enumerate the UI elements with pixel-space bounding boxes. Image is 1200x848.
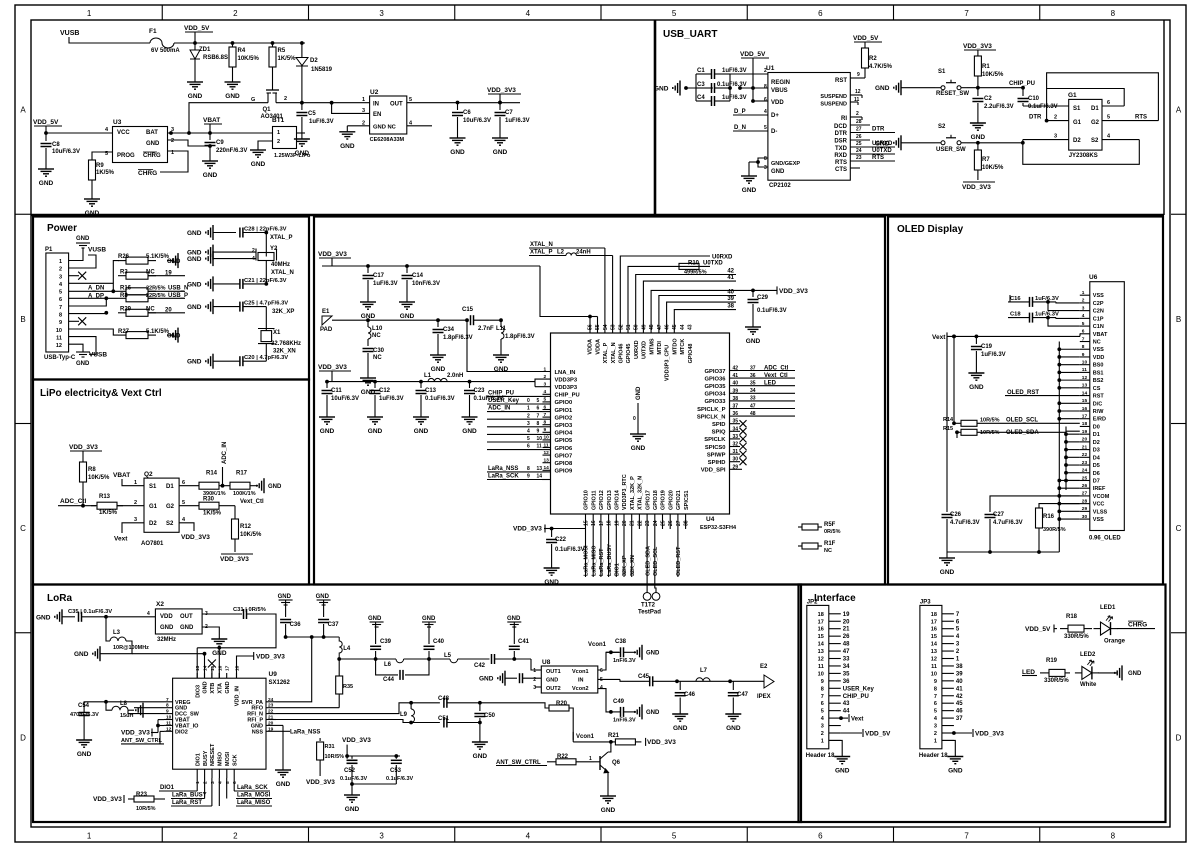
crystal X1 32.768KHz [265,307,267,331]
svg-text:40: 40 [733,381,739,387]
svg-text:X2: X2 [156,601,164,608]
svg-text:21: 21 [843,627,850,633]
svg-text:L9: L9 [400,712,408,718]
capacitor C1 1uF/6.3V [685,87,713,89]
svg-text:2: 2 [934,731,937,737]
svg-text:5: 5 [821,709,824,715]
svg-text:8: 8 [764,156,767,162]
wire U3 CHRG pin1 loop [160,151,188,172]
svg-text:6: 6 [59,297,62,303]
wire VDD rail to caps [322,265,540,267]
svg-text:C30: C30 [373,348,385,354]
svg-text:RTS: RTS [872,155,884,161]
svg-text:SPIWP: SPIWP [707,452,726,458]
svg-text:10: 10 [56,328,62,334]
svg-text:22: 22 [637,520,643,526]
svg-text:DTR: DTR [1029,115,1042,121]
svg-text:Header 18: Header 18 [806,753,835,759]
svg-text:VBUS: VBUS [771,88,788,94]
svg-text:C27: C27 [993,512,1005,518]
capacitor C20 4.7pF/6.3V [212,354,214,369]
svg-text:GND: GND [36,614,51,621]
svg-text:50: 50 [634,324,640,330]
svg-text:6: 6 [818,9,823,18]
capacitor C11 10uF/6.3V [325,380,329,384]
svg-text:VBAT: VBAT [203,117,220,124]
svg-text:6: 6 [764,97,767,103]
svg-text:C17: C17 [373,273,385,279]
svg-text:GND: GND [187,304,202,311]
svg-text:40: 40 [956,679,963,685]
svg-text:E2: E2 [760,664,768,670]
svg-text:GND: GND [167,259,181,265]
svg-text:EN: EN [373,112,381,118]
ground GND under U1 [748,170,750,176]
svg-text:30: 30 [733,457,739,463]
svg-text:GND: GND [473,753,488,760]
svg-text:17: 17 [818,619,824,625]
svg-text:7: 7 [166,697,169,703]
svg-text:VBAT: VBAT [113,472,130,479]
svg-text:NC: NC [373,355,382,361]
svg-text:4.7uF/6.3V: 4.7uF/6.3V [993,520,1023,526]
svg-text:DIO2: DIO2 [175,729,188,735]
svg-text:2.2uF/6.3V: 2.2uF/6.3V [984,104,1014,110]
svg-text:GPIO18: GPIO18 [653,490,659,510]
svg-text:G2: G2 [166,504,175,510]
capacitor C17 1uF/6.3V [366,264,370,268]
svg-text:GPIO35: GPIO35 [705,384,727,390]
svg-text:U0TXD: U0TXD [642,341,648,359]
svg-text:3: 3 [379,832,384,841]
svg-text:1: 1 [589,756,592,762]
svg-text:Vext: Vext [114,536,128,543]
wire U3 VCC [46,132,113,134]
svg-text:LaRa_MISO: LaRa_MISO [237,800,271,806]
wire P1 pin8 [69,313,107,315]
svg-text:R5: R5 [278,48,286,54]
capacitor C29 0.1uF/6.3V [752,290,754,297]
wire C36 C37 junction line [286,636,340,638]
wire U9 RFO pin23 to R35 [276,707,339,709]
svg-text:White: White [1080,682,1097,688]
svg-text:GND: GND [180,625,194,631]
svg-text:GND: GND [507,616,521,622]
wire Vcon1 to R21 junction [573,741,611,743]
svg-text:1: 1 [87,9,92,18]
svg-text:6: 6 [537,406,540,412]
wire XTA from DIO3 line [217,646,221,650]
svg-text:3: 3 [1054,134,1057,140]
wire U3 PROG to R9 [92,152,113,160]
svg-text:0.96_OLED: 0.96_OLED [1089,536,1121,542]
svg-text:2.7nF: 2.7nF [478,326,494,332]
svg-text:L2: L2 [557,250,565,256]
svg-text:0R/5%: 0R/5% [824,529,841,535]
svg-text:2.0nH: 2.0nH [447,373,463,379]
svg-text:SX1262: SX1262 [269,680,291,686]
svg-text:D1: D1 [1091,106,1099,112]
svg-text:JP2: JP2 [807,599,818,605]
svg-text:OLED_SDA: OLED_SDA [645,546,651,576]
capacitor C8 10uF/6.3V [45,133,47,141]
svg-text:VSS: VSS [1093,293,1104,299]
svg-text:GND: GND [414,428,429,435]
svg-text:LaRa_MISO: LaRa_MISO [591,545,597,576]
svg-text:55: 55 [595,324,601,330]
svg-text:10uF/6.3V: 10uF/6.3V [463,118,491,124]
ground GND under C7 [499,132,501,138]
svg-text:8: 8 [764,84,767,90]
svg-text:48: 48 [843,642,850,648]
svg-text:GND: GND [875,85,890,92]
svg-text:18: 18 [235,665,241,671]
svg-text:GND: GND [146,141,160,147]
svg-text:C9: C9 [216,140,224,146]
svg-text:C: C [20,524,26,533]
svg-text:4: 4 [600,685,603,691]
svg-text:S2: S2 [938,124,946,130]
svg-text:VDD3P3_CPU: VDD3P3_CPU [665,345,671,381]
ground GND under C29 [752,321,754,327]
svg-text:3: 3 [934,724,937,730]
ground GND under JP2 [841,751,843,757]
svg-text:U0TXD: U0TXD [703,261,723,267]
svg-text:3: 3 [821,724,824,730]
svg-text:NC: NC [372,333,381,339]
svg-text:6: 6 [821,701,824,707]
svg-text:1uF/6.3V: 1uF/6.3V [722,68,747,74]
svg-text:6V 500mA: 6V 500mA [151,48,180,54]
svg-text:Q1: Q1 [263,107,272,113]
svg-text:OLED_SCL: OLED_SCL [653,546,659,576]
svg-text:C1P: C1P [1093,316,1104,322]
svg-text:GND: GND [187,281,202,288]
svg-text:26: 26 [1082,483,1088,489]
svg-text:26: 26 [668,520,674,526]
svg-text:GND: GND [673,725,688,732]
wire VDDA pins [589,317,591,334]
wire DIO3 down [196,648,198,678]
svg-text:LED: LED [764,381,777,387]
svg-text:DCD: DCD [834,124,848,130]
svg-text:VDD: VDD [160,614,173,620]
svg-text:34: 34 [733,426,739,432]
svg-text:GND: GND [187,359,202,366]
svg-text:OLED_SCL: OLED_SCL [1006,418,1038,424]
svg-text:VDD_5V: VDD_5V [184,25,210,32]
svg-text:XTAL_P: XTAL_P [270,235,293,241]
svg-text:NSS: NSS [252,729,264,735]
svg-text:GND: GND [431,366,446,373]
svg-text:C49: C49 [613,699,625,705]
svg-text:12: 12 [855,89,861,95]
svg-text:GPIO11: GPIO11 [591,490,597,510]
svg-text:Vext: Vext [932,334,946,341]
svg-text:2: 2 [856,111,859,117]
svg-text:10K/5%: 10K/5% [238,56,260,62]
svg-text:41: 41 [733,373,739,379]
svg-text:RTS: RTS [835,160,847,166]
svg-text:LED1: LED1 [1100,605,1116,611]
svg-text:OLED_RST: OLED_RST [1007,390,1039,396]
svg-text:PAD: PAD [320,327,333,333]
section box LiPo [33,380,309,585]
svg-text:C40: C40 [433,639,445,645]
svg-text:C13: C13 [425,388,437,394]
svg-text:GND: GND [167,334,181,340]
inductor L10 NC [366,318,370,322]
svg-text:XTAL_P: XTAL_P [603,342,609,363]
svg-text:VDD_3V3: VDD_3V3 [256,654,285,661]
svg-text:35: 35 [733,419,739,425]
svg-text:C50: C50 [484,713,496,719]
svg-text:R35: R35 [343,684,353,690]
svg-text:R14: R14 [206,471,218,477]
capacitor C18 1uF/6.3V [1029,313,1031,323]
svg-text:CHRG: CHRG [1128,622,1147,629]
svg-text:11: 11 [818,664,824,670]
wire P1 pin11 pin12 to VUSB bottom [69,337,96,355]
svg-text:L10: L10 [372,326,383,332]
wire XTAL_N to C21 [265,261,267,284]
ground GND right of BT1 [297,132,306,134]
svg-text:VDDA: VDDA [595,339,601,355]
svg-text:NC: NC [1093,340,1101,346]
svg-text:C35 | 0.1uF/6.3V: C35 | 0.1uF/6.3V [68,609,112,615]
svg-text:CHIP_PU: CHIP_PU [488,391,514,397]
svg-text:GPIO17: GPIO17 [645,490,651,510]
svg-text:10uF/6.3V: 10uF/6.3V [331,396,359,402]
svg-text:G1: G1 [1073,120,1082,126]
svg-text:10R/5%: 10R/5% [325,754,345,760]
svg-text:D2: D2 [1073,138,1081,144]
svg-text:51: 51 [626,324,632,330]
svg-text:18: 18 [931,612,937,618]
svg-text:9: 9 [59,320,62,326]
svg-text:1: 1 [59,259,62,265]
svg-text:GND: GND [636,386,642,400]
svg-text:49: 49 [641,324,647,330]
svg-text:23: 23 [268,703,274,709]
wire U2 NC pin4 [407,125,432,127]
svg-text:GND: GND [345,806,360,813]
svg-text:D5: D5 [1093,463,1100,469]
svg-text:47: 47 [843,649,850,655]
svg-text:GND: GND [1128,671,1142,677]
svg-text:BS2: BS2 [1093,378,1104,384]
svg-text:BS0: BS0 [1093,363,1104,369]
svg-text:1K/5%: 1K/5% [278,56,297,62]
svg-text:27: 27 [676,520,682,526]
svg-text:1: 1 [544,366,547,372]
transistor Q1 AO3401 PMOS [272,67,274,90]
svg-text:L5: L5 [444,653,452,659]
capacitor C35 0.1uF/6.3V [78,612,80,622]
ground GND under R4 [232,76,234,82]
svg-text:42: 42 [733,366,739,372]
svg-text:5: 5 [600,677,603,683]
svg-text:L4: L4 [343,646,351,652]
ground U2 GND pin2 [347,125,369,127]
wire G1 S2 pin4 loop down [1102,139,1139,141]
svg-text:GND: GND [76,236,90,242]
capacitor C53 0.1uF/6.3V [391,759,402,761]
svg-text:LaRa_SCK: LaRa_SCK [237,785,268,791]
svg-text:C1: C1 [697,68,705,74]
svg-text:5: 5 [409,97,412,103]
svg-text:GND: GND [203,681,209,693]
svg-text:USB_N: USB_N [168,285,188,291]
svg-text:15: 15 [931,634,937,640]
svg-text:220nF/6.3V: 220nF/6.3V [216,148,247,154]
svg-text:GPIO5: GPIO5 [555,438,573,444]
JP2 pin1 to GND [829,740,842,750]
svg-text:33: 33 [733,434,739,440]
svg-text:U4: U4 [706,516,715,523]
svg-text:24: 24 [653,520,659,526]
svg-text:27: 27 [1082,491,1088,497]
zener diode ZD1 RSB6.8S [193,41,197,45]
svg-text:B: B [20,315,25,324]
svg-text:25: 25 [856,141,862,147]
svg-text:U0RXD: U0RXD [634,340,640,359]
svg-text:C47: C47 [737,692,749,698]
svg-text:5: 5 [537,398,540,404]
svg-text:Header 18: Header 18 [919,753,948,759]
U9 top pins [196,673,198,678]
ground GND under C5 [301,133,303,139]
svg-text:VDD_3V3: VDD_3V3 [487,87,516,94]
svg-text:Interface: Interface [814,593,856,604]
wire U9 RFI_N pin22 to C48 line [276,703,440,714]
svg-text:U0TXD: U0TXD [872,148,892,154]
svg-text:8: 8 [1111,832,1116,841]
svg-text:8: 8 [1082,344,1085,350]
svg-text:SUSPEND: SUSPEND [820,94,847,100]
svg-text:GND: GND [969,384,984,391]
capacitor C10 0.1uF/6.3V [1022,88,1024,96]
svg-text:15: 15 [210,665,216,671]
wire C31 loop to DIO3 line [197,614,276,648]
svg-text:2: 2 [284,96,287,102]
inductor L11 1.8pF/6.3V [499,318,503,322]
svg-text:VDD_3V3: VDD_3V3 [318,364,347,371]
svg-text:GND: GND [971,134,986,141]
wire Vext to R14 junction [952,335,956,339]
svg-text:1.25W3P-LiPo: 1.25W3P-LiPo [274,153,311,159]
svg-text:R14: R14 [943,417,954,423]
svg-text:3: 3 [544,382,547,388]
capacitor C25 4.7pF/6.3V [212,299,214,314]
svg-text:XTB: XTB [210,683,216,694]
ground GND at C35 [61,609,63,624]
svg-text:LNA_IN: LNA_IN [555,370,576,376]
svg-text:GND: GND [251,161,266,168]
svg-text:32MHz: 32MHz [157,637,176,643]
svg-text:3: 3 [134,517,137,523]
svg-text:35: 35 [843,671,850,677]
svg-text:C22: C22 [555,537,567,543]
svg-text:XTAL_N: XTAL_N [530,242,553,248]
wire VDD_5V rail [174,42,305,44]
svg-text:C29: C29 [757,295,769,301]
IC U9 SX1262 [173,678,266,769]
svg-text:VDD_5V: VDD_5V [1025,626,1051,633]
svg-text:BUSY: BUSY [203,750,209,766]
svg-text:9: 9 [166,709,169,715]
ground GND under C19 [975,367,977,373]
svg-text:GPIO3: GPIO3 [555,423,573,429]
section box OLED [888,217,1163,585]
svg-text:PROG: PROG [117,153,135,159]
svg-text:2: 2 [252,248,255,254]
svg-text:2: 2 [544,374,547,380]
svg-text:D1: D1 [166,484,174,490]
svg-text:10R/5%: 10R/5% [136,806,156,812]
svg-text:11: 11 [854,97,860,103]
svg-text:12: 12 [166,726,172,732]
svg-text:XTAL_N: XTAL_N [611,342,617,363]
svg-text:R1F: R1F [824,541,836,547]
svg-text:37: 37 [733,404,739,410]
D0-D7 bus [1065,427,1067,491]
svg-text:3: 3 [59,274,62,280]
svg-text:0: 0 [633,416,636,422]
svg-text:OUT: OUT [180,614,193,620]
svg-text:MTDO: MTDO [672,338,678,355]
svg-text:G: G [251,97,255,103]
svg-text:5: 5 [1082,321,1085,327]
power flag VDD_3V3 at C29 [751,289,755,293]
svg-text:GPIO37: GPIO37 [705,369,726,375]
svg-text:4: 4 [217,781,223,784]
svg-text:37: 37 [956,716,963,722]
section divider horizontal A/B [31,214,1164,217]
svg-text:13: 13 [1082,383,1088,389]
svg-text:5: 5 [672,832,677,841]
wire P1 pin5 A_DN [69,290,118,292]
U9 bottom pins [196,769,198,778]
svg-text:GND: GND [494,366,509,373]
svg-text:15: 15 [818,634,824,640]
capacitor C27 4.7uF/6.3V [989,505,991,512]
svg-text:Vext_Ctl: Vext_Ctl [764,373,788,379]
svg-text:TXD: TXD [835,146,848,152]
ground GND left of S1 [900,80,902,95]
svg-text:R21: R21 [608,733,620,739]
wire P1 pin10 [69,329,118,335]
svg-text:OUT2: OUT2 [546,686,561,692]
svg-text:SPICS0: SPICS0 [705,445,726,451]
svg-text:15: 15 [1082,398,1088,404]
wire Q2 D2 pin3 to Vext [122,523,144,533]
svg-text:VDD_SPI: VDD_SPI [701,468,726,474]
svg-text:R16: R16 [1043,514,1055,520]
svg-text:LaRa_NSS: LaRa_NSS [488,466,518,472]
svg-text:D-: D- [771,129,777,135]
svg-text:38: 38 [684,520,690,526]
svg-text:1uF/6.3V: 1uF/6.3V [722,95,747,101]
svg-text:GND: GND [450,149,465,156]
resistor R12 10K/5% [232,519,239,539]
svg-text:GPIO9: GPIO9 [555,469,573,475]
ground GND right of C38 [641,645,643,660]
svg-text:32K_XP: 32K_XP [622,555,628,576]
ground GND under C54 [83,734,85,740]
svg-text:R2: R2 [869,56,877,62]
resistor R4 10K/5% [231,41,235,45]
